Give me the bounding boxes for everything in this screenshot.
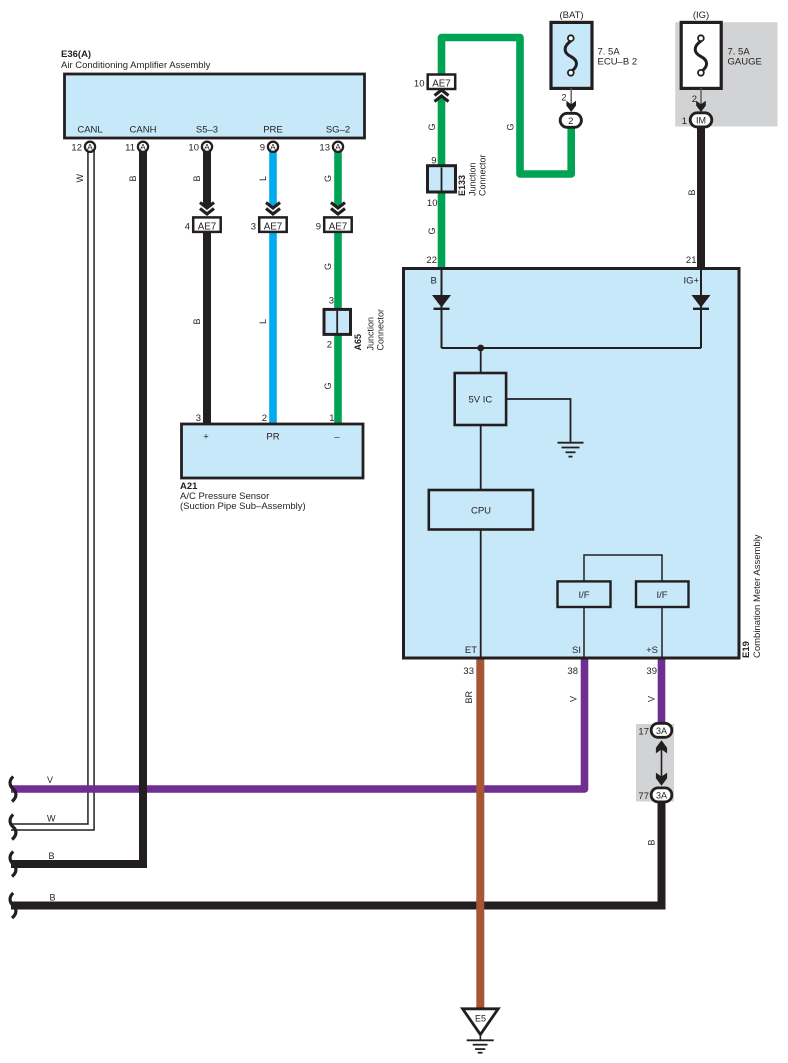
internal wire CPU to pin 33 ET bbox=[480, 530, 482, 658]
svg-text:L: L bbox=[258, 319, 268, 324]
svg-text:E5: E5 bbox=[475, 1014, 486, 1024]
svg-text:10: 10 bbox=[414, 79, 425, 90]
svg-text:IG+: IG+ bbox=[684, 276, 700, 287]
svg-text:+: + bbox=[203, 432, 209, 443]
connector arrow into 3 AE7 bbox=[266, 203, 280, 215]
svg-text:(Suction Pipe Sub–Assembly): (Suction Pipe Sub–Assembly) bbox=[180, 501, 306, 512]
svg-text:G: G bbox=[323, 263, 333, 270]
junction connector E133 bbox=[427, 156, 456, 210]
svg-text:2: 2 bbox=[262, 413, 267, 424]
pin circle 13 A (SG-2) bbox=[333, 142, 343, 152]
internal wire dot to 5V IC bbox=[480, 348, 482, 373]
component A21 A/C Pressure Sensor box bbox=[182, 413, 364, 478]
svg-text:5V IC: 5V IC bbox=[469, 395, 493, 406]
svg-text:G: G bbox=[323, 175, 333, 182]
svg-text:A: A bbox=[140, 142, 146, 152]
svg-text:12: 12 bbox=[71, 143, 82, 154]
fuse (BAT) labels bbox=[559, 10, 637, 67]
svg-text:A: A bbox=[204, 142, 210, 152]
svg-text:BR: BR bbox=[464, 690, 474, 703]
connector 9 AE7 bbox=[316, 217, 352, 232]
svg-text:9: 9 bbox=[431, 156, 436, 167]
svg-text:10: 10 bbox=[427, 198, 438, 209]
wire B from connector IM to E19 pin 21 bbox=[697, 127, 705, 268]
svg-text:PR: PR bbox=[266, 432, 279, 443]
wire V horizontal from pin 38 SI to left break bbox=[11, 658, 585, 789]
svg-text:GAUGE: GAUGE bbox=[728, 56, 762, 67]
svg-text:1: 1 bbox=[329, 413, 334, 424]
break symbol on wire B lower bbox=[10, 893, 16, 918]
svg-text:ECU–B 2: ECU–B 2 bbox=[598, 56, 638, 67]
internal wire 5V IC to ground bbox=[506, 399, 570, 442]
wire G from E36(A) pin 13 SG-2 to A21 pin 1 bbox=[334, 150, 342, 424]
svg-text:IM: IM bbox=[696, 115, 706, 125]
svg-text:B: B bbox=[687, 189, 697, 195]
svg-text:3: 3 bbox=[251, 222, 256, 233]
wire B from E36(A) pin 10 S5-3 to A21 pin 3 bbox=[203, 150, 211, 424]
svg-text:G: G bbox=[323, 382, 333, 389]
E36(A) title label bbox=[61, 49, 211, 71]
svg-text:B: B bbox=[647, 839, 657, 845]
svg-text:1: 1 bbox=[682, 116, 687, 127]
diode at pin 22 bbox=[432, 270, 451, 348]
svg-text:I/F: I/F bbox=[578, 590, 589, 601]
connector 3 AE7 bbox=[251, 217, 287, 232]
svg-text:SG–2: SG–2 bbox=[326, 125, 350, 136]
I/F block left bbox=[558, 581, 611, 607]
svg-text:13: 13 bbox=[319, 143, 330, 154]
svg-text:PRE: PRE bbox=[263, 125, 283, 136]
break symbol on wire V bbox=[10, 777, 16, 802]
fuse (IG) labels bbox=[693, 10, 762, 67]
svg-text:2: 2 bbox=[327, 340, 332, 351]
component E19 Combination Meter Assembly box bbox=[404, 269, 740, 659]
svg-text:G: G bbox=[427, 227, 437, 234]
svg-text:L: L bbox=[258, 176, 268, 181]
svg-text:–: – bbox=[334, 432, 340, 443]
svg-text:77: 77 bbox=[638, 791, 649, 802]
svg-text:B: B bbox=[192, 318, 202, 324]
svg-text:V: V bbox=[647, 696, 657, 702]
svg-text:21: 21 bbox=[686, 255, 697, 266]
wire W from E36(A) pin 12 CANL to left break bbox=[11, 150, 91, 827]
junction connector A65 rotated label bbox=[353, 309, 386, 351]
svg-text:AE7: AE7 bbox=[198, 222, 217, 233]
svg-text:I/F: I/F bbox=[656, 590, 667, 601]
svg-text:ET: ET bbox=[465, 645, 477, 656]
fuse 7.5A ECU-B 2 (BAT) bbox=[551, 22, 592, 88]
svg-text:2: 2 bbox=[568, 116, 573, 127]
svg-text:9: 9 bbox=[316, 222, 321, 233]
break symbol on wire W bbox=[10, 815, 16, 840]
diode at pin 21 bbox=[692, 270, 711, 348]
connector 10 AE7 bbox=[414, 75, 455, 90]
pin 2 of fuse IG with arrow bbox=[692, 88, 706, 112]
svg-text:CANL: CANL bbox=[77, 125, 102, 136]
wire BR from E19 pin 33 ET to ground E5 bbox=[476, 658, 484, 1009]
svg-text:4: 4 bbox=[185, 222, 190, 233]
internal ground symbol bbox=[558, 443, 584, 457]
E19 rotated label bbox=[741, 534, 763, 658]
svg-text:E133: E133 bbox=[457, 175, 467, 196]
connector arrow into 4 AE7 bbox=[200, 203, 214, 215]
double arrow between 3A connectors bbox=[656, 740, 667, 786]
svg-text:B: B bbox=[50, 893, 56, 903]
svg-text:Junction: Junction bbox=[468, 162, 478, 196]
connector oval 1 IM bbox=[682, 113, 712, 127]
connector oval 77 3A bbox=[638, 788, 671, 802]
pin 2 of fuse BAT with arrow bbox=[561, 88, 576, 112]
svg-text:AE7: AE7 bbox=[329, 222, 348, 233]
connector arrow out of 10 AE7 bbox=[435, 90, 449, 102]
wire V from E19 pin 39 +S to connector 17 3A bbox=[658, 658, 666, 726]
I/F block right bbox=[636, 581, 689, 607]
wire B from connector 77 3A to left break bbox=[11, 800, 662, 906]
junction node dot bbox=[477, 345, 484, 352]
svg-text:G: G bbox=[506, 123, 516, 130]
svg-text:3: 3 bbox=[196, 413, 201, 424]
svg-text:Air Conditioning Amplifier Ass: Air Conditioning Amplifier Assembly bbox=[61, 60, 211, 71]
wire B from E36(A) pin 11 CANH to left break bbox=[11, 150, 143, 864]
svg-text:Connector: Connector bbox=[478, 154, 488, 196]
svg-text:B: B bbox=[431, 276, 437, 287]
svg-text:B: B bbox=[49, 851, 55, 861]
connector 4 AE7 bbox=[185, 217, 221, 232]
pin circle 10 A (S5-3) bbox=[202, 142, 212, 152]
svg-text:AE7: AE7 bbox=[264, 222, 283, 233]
internal wire I/F to pin 39 +S bbox=[661, 607, 663, 657]
5V IC block bbox=[455, 373, 506, 425]
wire L from E36(A) pin 9 PRE to A21 pin 2 bbox=[269, 150, 277, 424]
svg-text:A: A bbox=[270, 142, 276, 152]
svg-text:39: 39 bbox=[646, 666, 657, 677]
svg-text:B: B bbox=[128, 175, 138, 181]
svg-text:Junction: Junction bbox=[366, 317, 376, 351]
svg-text:11: 11 bbox=[125, 143, 135, 154]
internal wire I/F to pin 38 SI bbox=[583, 607, 585, 657]
svg-text:A: A bbox=[87, 142, 93, 152]
svg-text:2: 2 bbox=[561, 93, 566, 104]
connector oval 2 (BAT) bbox=[560, 113, 581, 127]
internal wire joining I/F blocks bbox=[584, 555, 662, 581]
svg-text:3A: 3A bbox=[656, 790, 667, 800]
svg-text:S5–3: S5–3 bbox=[196, 125, 218, 136]
svg-text:A: A bbox=[335, 142, 341, 152]
svg-text:(BAT): (BAT) bbox=[559, 10, 583, 21]
break symbol on wire B upper bbox=[10, 852, 16, 877]
svg-text:G: G bbox=[427, 123, 437, 130]
CPU block bbox=[429, 490, 533, 530]
svg-text:W: W bbox=[47, 814, 56, 824]
svg-text:B: B bbox=[192, 175, 202, 181]
internal wire 5V IC to CPU bbox=[480, 425, 482, 490]
connector oval 17 3A bbox=[638, 723, 671, 737]
junction connector A65 bbox=[324, 296, 351, 351]
svg-text:22: 22 bbox=[426, 255, 437, 266]
svg-text:+S: +S bbox=[646, 645, 658, 656]
svg-text:9: 9 bbox=[260, 143, 265, 154]
svg-text:A65: A65 bbox=[353, 334, 363, 351]
junction connector E133 rotated label bbox=[457, 154, 488, 196]
wire G from fuse ECU-B 2 connector 2 to connector 10 AE7 bbox=[442, 38, 572, 175]
svg-text:V: V bbox=[47, 775, 53, 785]
ground E5 bbox=[463, 1009, 499, 1053]
svg-text:33: 33 bbox=[463, 666, 474, 677]
svg-text:V: V bbox=[569, 696, 579, 702]
svg-text:Combination Meter Assembly: Combination Meter Assembly bbox=[752, 534, 763, 658]
wire G from connector 10 AE7 to E19 pin 22 bbox=[438, 87, 446, 268]
svg-text:AE7: AE7 bbox=[432, 79, 451, 90]
svg-text:W: W bbox=[75, 174, 85, 183]
svg-text:17: 17 bbox=[638, 727, 649, 738]
component A21 label bbox=[180, 481, 306, 512]
svg-text:CANH: CANH bbox=[130, 125, 157, 136]
svg-text:3A: 3A bbox=[656, 726, 667, 736]
pin circle 12 A (CANL) bbox=[85, 142, 95, 152]
svg-text:10: 10 bbox=[188, 143, 199, 154]
svg-text:E36(A): E36(A) bbox=[61, 49, 91, 60]
component E36(A) Air Conditioning Amplifier Assembly box bbox=[65, 74, 365, 138]
pin circle 11 A (CANH) bbox=[138, 142, 148, 152]
fuse 7.5A GAUGE (IG) bbox=[681, 22, 721, 88]
gray zone around fuse GAUGE (IG) bbox=[675, 22, 777, 126]
svg-text:SI: SI bbox=[572, 645, 581, 656]
svg-text:E19: E19 bbox=[741, 641, 752, 658]
gray zone around 3A connectors bbox=[636, 724, 674, 802]
svg-text:(IG): (IG) bbox=[693, 10, 709, 21]
internal wire joining diodes bbox=[442, 347, 702, 349]
connector arrow into 9 AE7 bbox=[331, 203, 345, 215]
pin circle 9 A (PRE) bbox=[268, 142, 278, 152]
svg-text:CPU: CPU bbox=[471, 506, 491, 517]
svg-text:38: 38 bbox=[567, 666, 578, 677]
svg-text:Connector: Connector bbox=[376, 309, 386, 351]
svg-text:3: 3 bbox=[329, 296, 334, 307]
